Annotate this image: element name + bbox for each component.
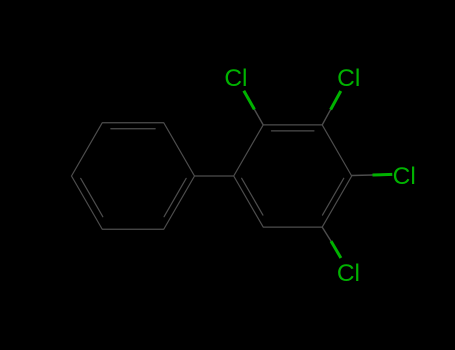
svg-text:Cl: Cl [337, 260, 360, 287]
svg-text:Cl: Cl [224, 65, 247, 92]
svg-text:Cl: Cl [337, 65, 360, 92]
svg-text:Cl: Cl [393, 163, 416, 190]
